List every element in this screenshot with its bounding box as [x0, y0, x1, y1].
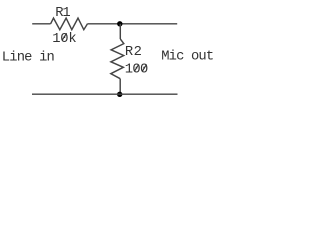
wire top-left (Line in to R1): [32, 23, 50, 25]
svg-text:R1: R1: [55, 6, 70, 21]
svg-text:10k: 10k: [52, 31, 76, 47]
wire R2 top stub: [119, 24, 121, 39]
resistor R2: [111, 39, 124, 79]
junction dot bottom: [117, 92, 122, 97]
svg-text:Mic out: Mic out: [161, 48, 214, 64]
wire bottom rail: [32, 93, 178, 95]
wire top-right (R1 to Mic out through junction): [88, 23, 178, 25]
resistor R1: [51, 18, 88, 30]
slash of zero in 10k: [62, 33, 66, 40]
junction dot top: [117, 21, 122, 26]
svg-text:Line in: Line in: [2, 49, 55, 65]
slashes of zeros in 100: [134, 64, 138, 71]
svg-text:R2: R2: [125, 45, 142, 60]
svg-text:100: 100: [125, 62, 149, 77]
wire R2 bottom stub: [119, 79, 121, 95]
